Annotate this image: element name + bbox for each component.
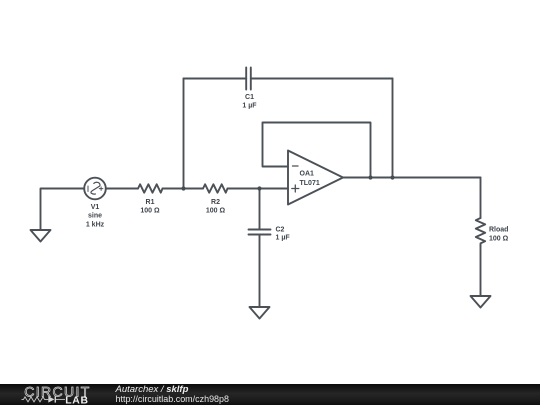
svg-text:sine: sine <box>88 213 102 220</box>
svg-text:100 Ω: 100 Ω <box>140 208 160 215</box>
wire: R2 to op-amp + input through node B <box>228 188 289 190</box>
label C1 1 uF <box>242 94 257 110</box>
op-amp plus sign <box>292 185 299 192</box>
label V1 sine 1 kHz <box>86 204 105 228</box>
logo squiggle: diode <box>48 396 56 402</box>
wire: op-amp output to Rload corner <box>343 177 481 179</box>
wire: R1 to R2 through node A <box>163 188 204 190</box>
svg-text:http://circuitlab.com/czh98p8: http://circuitlab.com/czh98p8 <box>116 394 230 405</box>
resistor R2 <box>203 184 228 192</box>
svg-text:C1: C1 <box>245 94 254 101</box>
svg-text:LAB: LAB <box>65 396 88 405</box>
svg-text:Rload: Rload <box>489 226 508 233</box>
label R2 100 Ohm <box>206 199 226 215</box>
svg-text:1 µF: 1 µF <box>276 235 291 242</box>
output node junction dot (feedback) <box>368 175 372 179</box>
wire: inverting input feedback loop <box>263 123 371 178</box>
svg-text:OA1: OA1 <box>300 171 315 178</box>
svg-text:R1: R1 <box>146 199 155 206</box>
ground G3 (below Rload) <box>471 296 491 308</box>
node B junction dot <box>257 186 261 190</box>
V1 minus terminal mark <box>87 186 89 192</box>
wire: node A up to C1 feedback rail <box>183 79 185 189</box>
node A junction dot <box>181 186 185 190</box>
svg-text:1 kHz: 1 kHz <box>86 221 105 228</box>
svg-text:100 Ω: 100 Ω <box>206 208 226 215</box>
op-amp minus sign <box>293 165 299 167</box>
label C2 1 uF <box>276 226 291 241</box>
logo squiggle: wire to LAB <box>56 398 65 400</box>
V1 plus terminal mark <box>99 187 103 191</box>
svg-text:V1: V1 <box>91 204 100 211</box>
wire: left rail from ground corner to V1 <box>41 189 85 231</box>
ground G2 (below C2) <box>250 307 270 319</box>
capacitor C2 plates <box>249 230 271 235</box>
resistor Rload (vertical) <box>476 218 485 246</box>
voltage source V1 circle <box>84 178 106 200</box>
ground G1 (left, below V1 net) <box>31 230 51 242</box>
svg-text:C2: C2 <box>276 226 285 233</box>
svg-text:1 µF: 1 µF <box>242 103 257 110</box>
wire: node B down to C2 <box>259 189 261 230</box>
V1 sine symbol <box>91 182 100 194</box>
wire: C1 right plate to right drop <box>251 78 393 80</box>
output node junction dot (C1) <box>390 175 394 179</box>
wire: V1 to R1 <box>106 188 138 190</box>
svg-text:TL071: TL071 <box>300 180 320 187</box>
logo squiggle: resistor <box>22 397 49 402</box>
wire: C1 rail down to output node <box>392 79 394 178</box>
label Rload 100 Ohm <box>489 226 509 242</box>
svg-text:R2: R2 <box>211 199 220 206</box>
label R1 100 Ohm <box>140 199 160 215</box>
resistor R1 <box>138 184 163 192</box>
wire: Rload to ground <box>480 246 482 296</box>
wire: C2 to ground <box>259 235 261 308</box>
svg-text:100 Ω: 100 Ω <box>489 235 509 242</box>
op-amp U1 triangle <box>288 151 343 205</box>
capacitor C1 plates <box>246 68 251 90</box>
label OA1 TL071 <box>300 171 320 187</box>
wire: down to Rload <box>480 178 482 219</box>
wire: top rail to C1 left plate <box>184 78 247 80</box>
